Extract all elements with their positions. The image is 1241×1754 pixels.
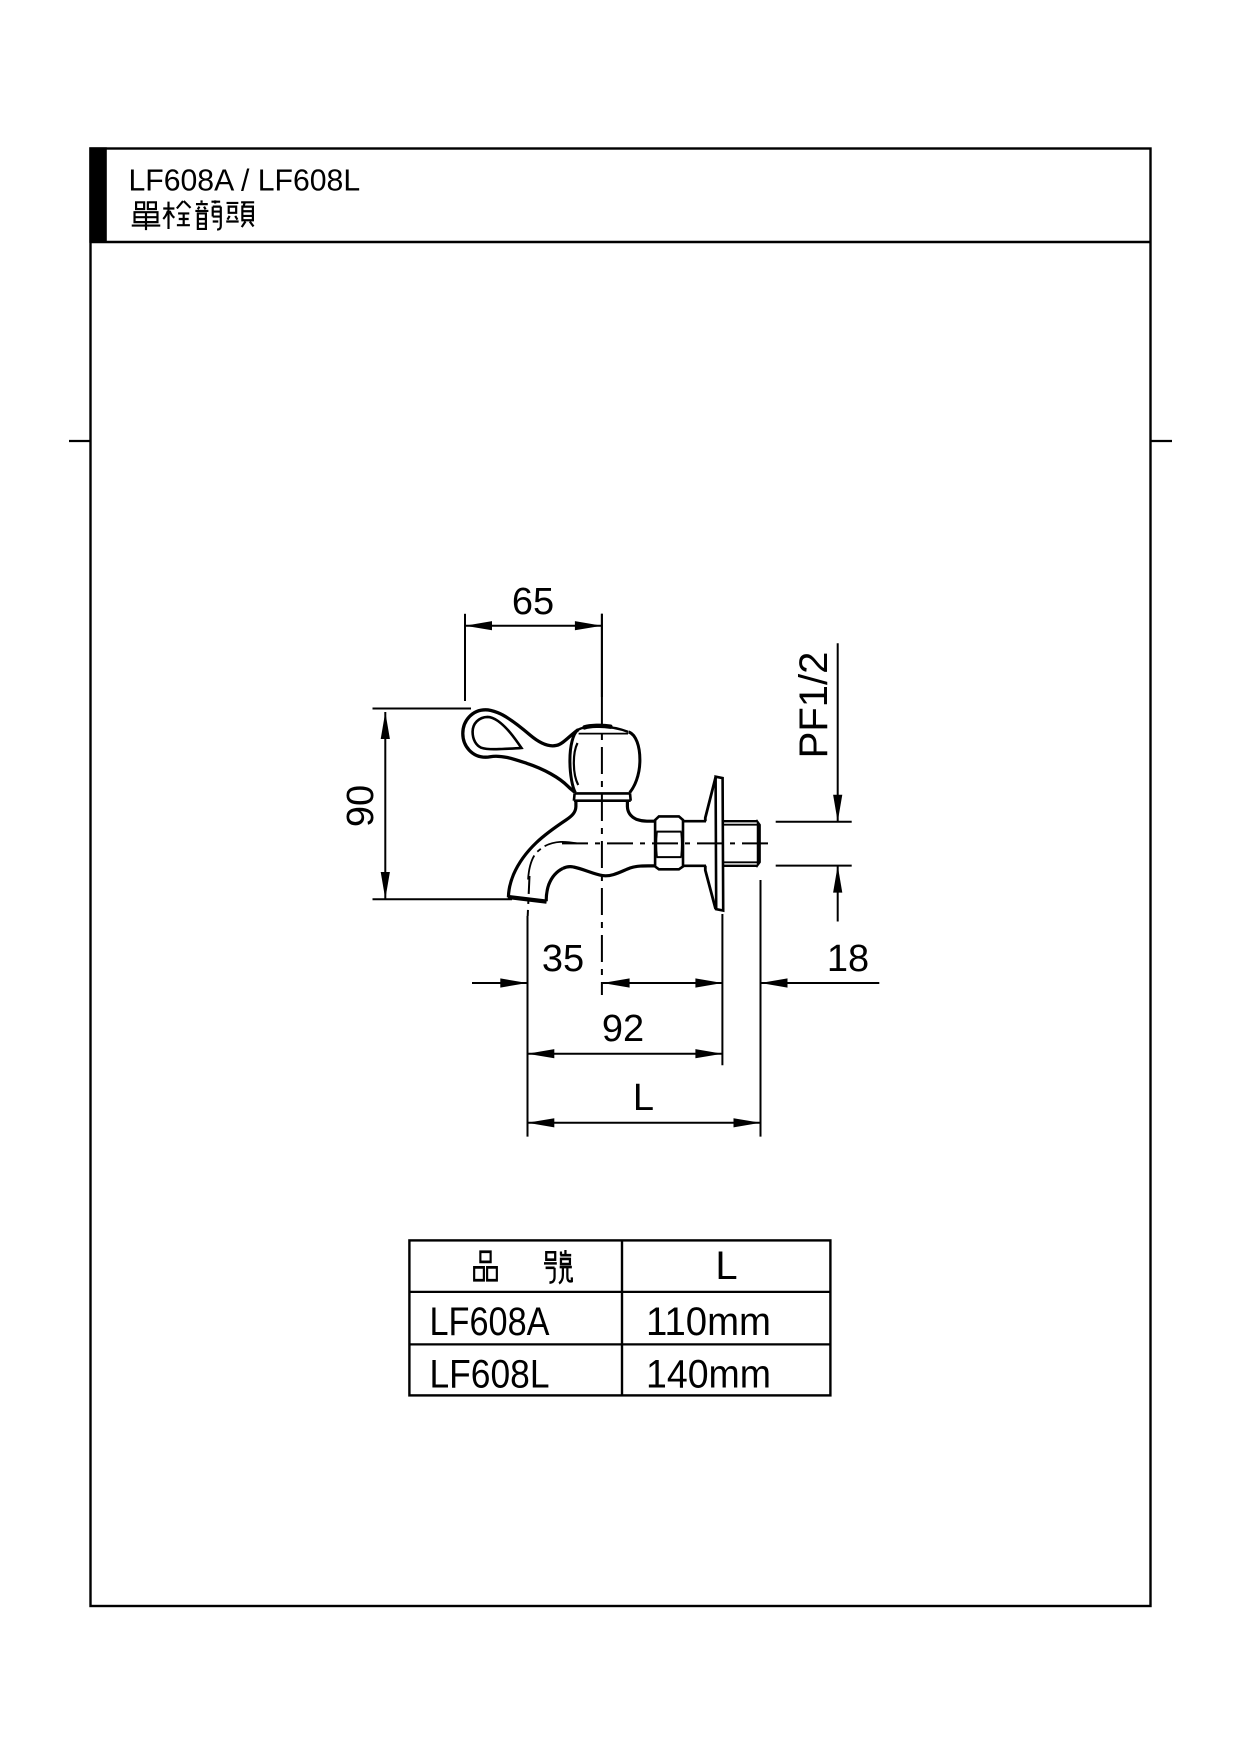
flange cone upper slant: [705, 777, 715, 821]
svg-text:140mm: 140mm: [646, 1353, 771, 1397]
spout outlet lip: [508, 897, 547, 902]
svg-text:L: L: [715, 1244, 737, 1288]
spout bore line right: [545, 842, 577, 846]
body right side to pipe: [627, 801, 655, 822]
threaded pipe top lines: [723, 820, 757, 822]
spout bore line: [528, 856, 534, 880]
body left side and spout outer curve: [508, 801, 576, 898]
nut face line bottom: [657, 856, 682, 858]
bonnet bulb right side: [629, 732, 640, 793]
bonnet cap top arc: [578, 726, 629, 732]
flange cone lower slant: [705, 866, 715, 909]
body bottom wave: [563, 866, 655, 876]
threaded pipe bottom lines: [723, 865, 757, 867]
svg-text:L: L: [633, 1077, 654, 1119]
collar: [574, 793, 631, 800]
dimension 90 extension line bottom: [373, 898, 513, 900]
dimension 65 extension line right: [601, 614, 603, 697]
pipe end cap: [758, 821, 761, 866]
PF1/2 extension line bottom: [776, 865, 852, 867]
table column divider: [621, 1240, 623, 1395]
pipe between nut and flange top: [683, 820, 706, 823]
PF1/2 dimension line upper: [837, 643, 839, 822]
dimension 90 arrow top: [381, 712, 390, 739]
dimension 65 line: [465, 625, 602, 627]
title Chinese 龍: [195, 200, 220, 229]
table header 品: [474, 1252, 497, 1281]
title Chinese 頭: [226, 202, 254, 227]
dimension 18 line segment C: [761, 982, 880, 984]
left tick: [69, 440, 90, 442]
PF1/2 arrow down: [833, 795, 842, 822]
svg-text:LF608A / LF608L: LF608A / LF608L: [129, 165, 361, 198]
spout axis dash: [528, 876, 530, 916]
table header 號: [544, 1250, 572, 1283]
faucet handle outline: [463, 710, 579, 793]
dimension 92 line: [527, 1053, 722, 1055]
svg-text:LF608A: LF608A: [430, 1300, 550, 1344]
svg-text:18: 18: [827, 938, 869, 980]
handle hole: [473, 717, 522, 749]
dimension L line: [527, 1122, 760, 1124]
svg-text:65: 65: [512, 581, 554, 623]
dimension 35/18 line segment A: [472, 982, 527, 984]
dimension 65 extension line left: [464, 614, 466, 701]
nut face line top: [657, 831, 682, 833]
faucet vertical centerline: [601, 700, 603, 995]
dimension 35 extension line (spout center): [527, 916, 529, 1137]
header black bar: [89, 147, 107, 243]
header divider: [91, 241, 1151, 243]
spout bore line dash: [537, 849, 541, 852]
dimension 90 extension line top: [373, 708, 472, 710]
PF1/2 dimension line lower: [837, 866, 839, 922]
wall flange plate: [716, 777, 724, 911]
dimension 65 arrow right: [575, 621, 602, 630]
svg-text:35: 35: [542, 938, 584, 980]
dimension 35/18 line segment B: [603, 982, 723, 984]
title Chinese 栓: [163, 201, 190, 229]
pipe end extension line: [760, 880, 762, 1137]
faucet vertical centerline solid top: [601, 614, 603, 700]
page frame: [91, 149, 1151, 1607]
pipe between nut and flange bottom: [683, 864, 706, 867]
title Chinese 單: [132, 202, 161, 230]
svg-text:LF608L: LF608L: [430, 1353, 550, 1397]
table row divider 1: [409, 1291, 830, 1293]
svg-text:90: 90: [340, 785, 382, 827]
svg-text:92: 92: [602, 1008, 644, 1050]
table row divider 2: [409, 1343, 830, 1345]
nut middle band left arc: [655, 832, 658, 857]
right tick: [1151, 440, 1172, 442]
dimension 65 arrow left: [465, 621, 492, 630]
faucet horizontal centerline: [562, 842, 770, 844]
PF1/2 arrow up: [833, 866, 842, 893]
bulb highlight arc: [574, 743, 578, 785]
svg-text:PF1/2: PF1/2: [792, 652, 836, 759]
bonnet bulb left side: [570, 730, 578, 793]
PF1/2 extension line top: [776, 821, 852, 823]
bonnet cap seam: [579, 733, 628, 735]
spout inner curve: [546, 868, 563, 901]
svg-text:110mm: 110mm: [646, 1300, 771, 1344]
flange face extension line: [721, 914, 723, 1065]
nut middle band right arc: [680, 832, 683, 857]
hex nut silhouette: [655, 816, 683, 869]
table outer border: [409, 1240, 830, 1395]
dimension 90 line: [384, 712, 386, 899]
dimension 90 arrow bottom: [381, 872, 390, 899]
bonnet cap top thick arc: [585, 726, 611, 728]
